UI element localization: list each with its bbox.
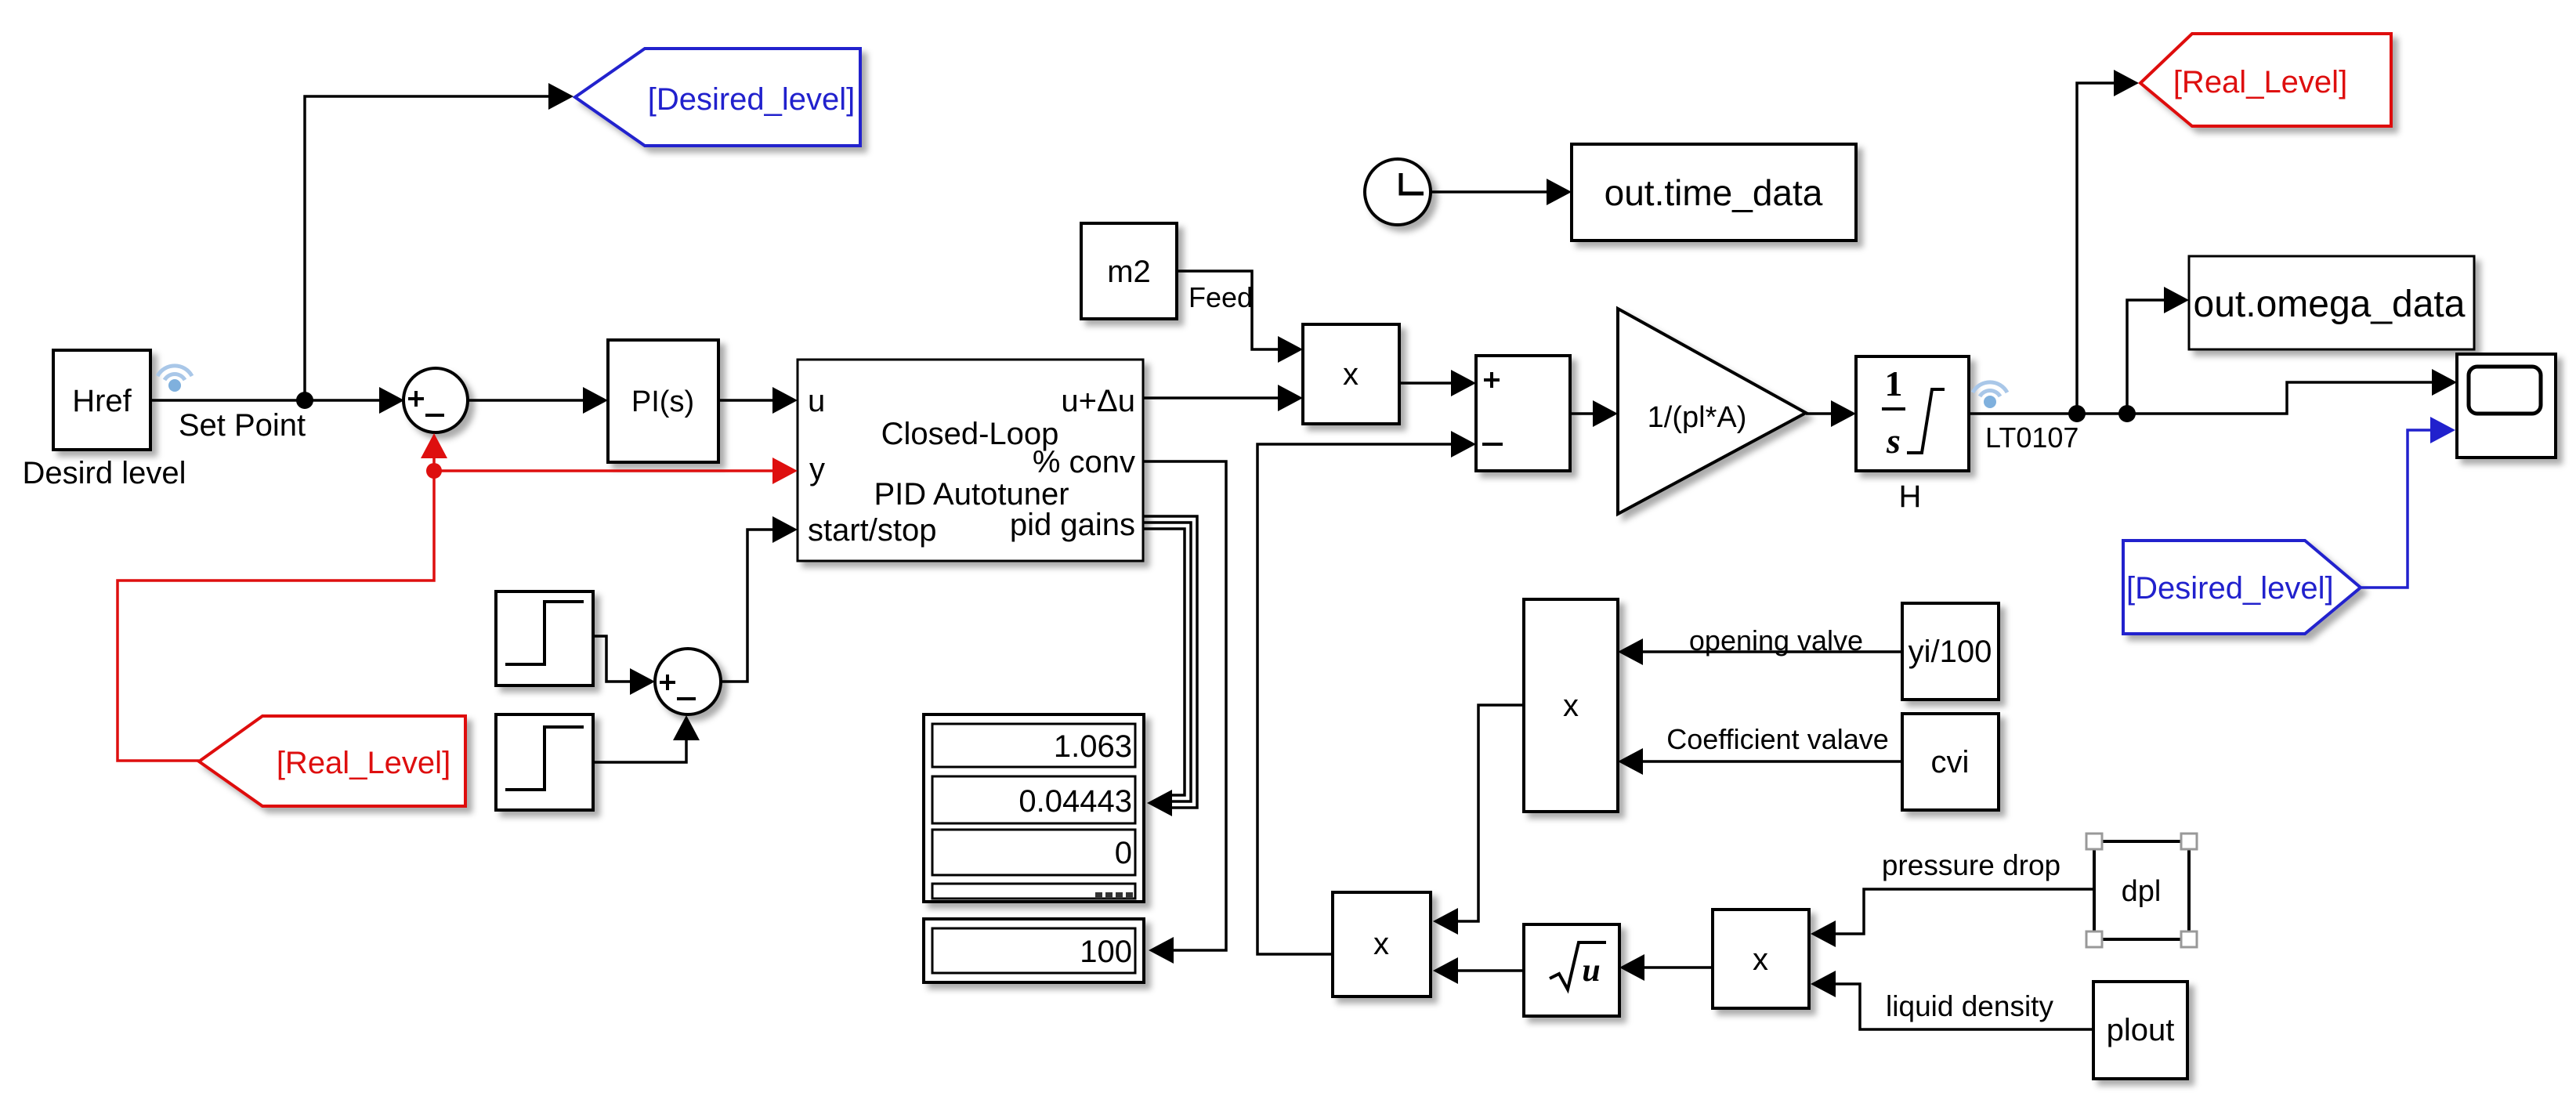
svg-text:s: s	[1886, 421, 1901, 461]
wire Gain to Integrator	[1806, 400, 1856, 427]
block Product1 (x)	[1303, 324, 1399, 424]
gain block 1/(pl*A) triangle	[1618, 309, 1806, 514]
svg-text:H: H	[1899, 479, 1922, 514]
from tag [Desired_level] blue	[2123, 541, 2361, 634]
block out.omega_data	[2189, 256, 2474, 349]
wire Step1 to S2	[593, 636, 655, 695]
block Step1	[496, 591, 593, 685]
svg-text:[Desired_level]: [Desired_level]	[2126, 571, 2334, 606]
svg-text:u: u	[1582, 953, 1600, 989]
node Set Point branch junction	[296, 392, 313, 409]
svg-text:x: x	[1343, 357, 1359, 392]
goto tag [Desired_level] blue	[575, 49, 860, 146]
label Desird level	[23, 456, 186, 490]
svg-text:PI(s): PI(s)	[631, 385, 694, 418]
block Scope	[2457, 354, 2556, 458]
svg-text:yi/100: yi/100	[1908, 635, 1992, 669]
label LT0107	[1985, 421, 2079, 454]
block Display pid gains	[924, 714, 1144, 902]
block Product3 (x)	[1713, 910, 1809, 1008]
label H under integrator	[1899, 479, 1922, 514]
wire yi/100 to Product2	[1618, 638, 1902, 665]
svg-text:0.04443: 0.04443	[1018, 784, 1132, 819]
svg-text:dpl: dpl	[2122, 875, 2162, 908]
block Display 100	[924, 919, 1144, 982]
node J2	[2118, 405, 2136, 422]
svg-text:Desird level: Desird level	[23, 456, 186, 490]
block Closed-Loop PID Autotuner	[798, 360, 1143, 561]
wire J2 to Scope input 1	[2127, 369, 2457, 414]
label opening valve	[1689, 624, 1863, 656]
svg-text:1: 1	[1885, 363, 1903, 403]
label Set Point	[179, 408, 306, 443]
wire Href to Sum1	[150, 387, 404, 414]
svg-text:pressure drop: pressure drop	[1882, 849, 2060, 881]
svg-text:u: u	[808, 384, 825, 418]
block cvi	[1902, 714, 1999, 810]
wire Product2 to Product4 top input	[1433, 705, 1524, 935]
svg-text:[Real_Level]: [Real_Level]	[277, 746, 450, 780]
wire cvi to Product2	[1618, 748, 1902, 775]
block Sqrt sqrt(u)	[1524, 924, 1619, 1016]
svg-text:Set Point: Set Point	[179, 408, 306, 443]
wifi logging badge on Href output	[157, 366, 192, 392]
svg-text:[Real_Level]: [Real_Level]	[2173, 65, 2347, 99]
wire Integrator to J1	[1969, 412, 2077, 415]
wire Sum3 to Gain	[1570, 400, 1618, 427]
sum junction S2 (+,-)	[655, 649, 721, 714]
block Product4 (x)	[1333, 892, 1431, 996]
red feedback wire from Real_Level tag up to S1 bottom	[118, 433, 447, 761]
red wire to y port	[434, 458, 798, 484]
svg-text:liquid density: liquid density	[1886, 990, 2053, 1022]
goto tag [Real_Level] red	[2140, 34, 2391, 126]
wire J1 up to Real_Level goto tag	[2077, 70, 2139, 414]
block yi/100	[1902, 603, 1999, 700]
red node junction on feedback	[426, 463, 442, 479]
clock block	[1365, 159, 1431, 225]
wire Product1 to Sum3 plus	[1399, 370, 1476, 396]
block dpl with selection handles	[2086, 834, 2197, 947]
svg-text:% conv: % conv	[1033, 445, 1135, 479]
svg-text:1.063: 1.063	[1054, 729, 1132, 764]
triple wire pid gains bus to Display	[1143, 516, 1197, 816]
svg-text:Feed: Feed	[1189, 281, 1253, 313]
blue wire Desired_level tag to Scope input 2	[2361, 417, 2455, 588]
from tag [Real_Level] red	[199, 716, 465, 806]
svg-text:u+Δu: u+Δu	[1061, 384, 1135, 418]
svg-text:PID Autotuner: PID Autotuner	[874, 477, 1069, 512]
label Coefficient valave	[1666, 723, 1889, 755]
wire J2 up to out.omega_data	[2127, 287, 2189, 414]
svg-text:Href: Href	[72, 384, 132, 418]
wire m2 to Product1 top input	[1177, 271, 1303, 363]
wire Product3 to Sqrt	[1619, 954, 1713, 981]
block out.time_data	[1572, 144, 1856, 241]
svg-text:opening valve: opening valve	[1689, 624, 1863, 656]
wire clock to out.time_data	[1431, 179, 1572, 205]
label Feed	[1189, 281, 1253, 313]
svg-text:plout: plout	[2107, 1013, 2175, 1047]
svg-text:x: x	[1563, 689, 1579, 723]
svg-text:out.time_data: out.time_data	[1605, 172, 1823, 213]
wire PI(s) to u port	[718, 387, 798, 414]
block Step2	[496, 714, 593, 810]
wire S2 to start/stop port	[721, 516, 798, 682]
block plout	[2093, 982, 2187, 1079]
node J1	[2068, 405, 2086, 422]
wire % conv to Display 100	[1143, 461, 1226, 964]
wire Sqrt to Product4 bottom input	[1433, 957, 1524, 984]
svg-text:start/stop: start/stop	[808, 513, 937, 548]
block Sum3 (+ -)	[1476, 356, 1570, 471]
block PI(s) PID controller	[608, 340, 718, 462]
svg-text:cvi: cvi	[1931, 745, 1970, 779]
label liquid density	[1886, 990, 2053, 1022]
svg-text:m2: m2	[1107, 255, 1151, 289]
svg-text:y: y	[809, 452, 825, 486]
svg-text:Coefficient valave: Coefficient valave	[1666, 723, 1889, 755]
svg-text:out.omega_data: out.omega_data	[2194, 284, 2466, 325]
wire Step2 to S2	[593, 715, 700, 762]
wire plout to Product3 bottom input	[1811, 971, 2093, 1029]
wire u+Δu to Product1 bottom input	[1143, 385, 1303, 411]
svg-text:x: x	[1373, 927, 1389, 961]
wire branch up to Desired_level goto tag	[305, 83, 573, 400]
block Integrator 1/s with saturation	[1856, 356, 1969, 471]
svg-text:100: 100	[1080, 935, 1132, 969]
svg-text:x: x	[1753, 942, 1768, 977]
block Product2 tall (x)	[1524, 599, 1618, 812]
svg-text:1/(pl*A): 1/(pl*A)	[1648, 401, 1747, 434]
wire S1 to PI(s)	[468, 387, 608, 414]
wire dpl to Product3 top input	[1811, 889, 2094, 947]
svg-text:pid gains: pid gains	[1010, 508, 1135, 542]
svg-text:0: 0	[1115, 836, 1132, 870]
label pressure drop	[1882, 849, 2060, 881]
wifi logging badge LT0107	[1973, 382, 2007, 408]
sum junction S1 (+,-)	[403, 368, 468, 432]
block Href (Desird level source)	[53, 350, 150, 450]
block m2 constant	[1081, 223, 1177, 319]
wire Product4 output up to Sum3 minus	[1257, 431, 1476, 954]
svg-text:[Desired_level]: [Desired_level]	[648, 82, 856, 117]
wire J1 to J2	[2077, 412, 2127, 415]
svg-text:LT0107: LT0107	[1985, 421, 2079, 454]
